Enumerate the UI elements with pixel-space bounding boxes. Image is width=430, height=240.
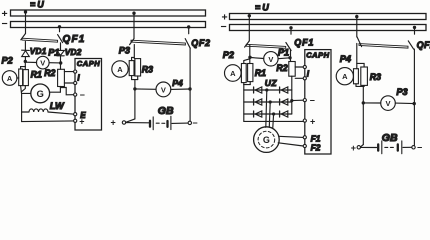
voltmeter P4 (left circuit) — [156, 82, 171, 97]
terminal plus of left CAPH — [74, 119, 77, 122]
svg-text:QF2: QF2 — [191, 38, 210, 48]
wire node to voltmeter P3 (right circuit) — [363, 102, 381, 104]
breaker QF2 pole-A blade (right circuit) — [357, 37, 362, 47]
wire phase 2 to machine — [268, 102, 271, 127]
node phase1 junction — [265, 88, 268, 91]
terminal I1 of left CAPH — [74, 70, 77, 73]
terminal I1 of right CAPH — [303, 65, 306, 68]
node phase2 junction — [269, 100, 272, 103]
bus - busbar bottom (left circuit) — [11, 22, 206, 28]
wire G armature right to R2 bottom node — [50, 91, 61, 93]
svg-text:+: + — [79, 117, 84, 127]
wire node A down to T split — [24, 62, 26, 67]
ammeter P2 (right circuit) — [225, 65, 242, 82]
wire node A to voltmeter P1 — [26, 61, 37, 63]
wire QF2 pole A down to R3 branch — [133, 45, 135, 59]
svg-text:+: + — [310, 117, 315, 127]
breaker QF1 linkage bar (right circuit) — [246, 44, 285, 48]
ammeter P4 (right circuit) — [336, 68, 353, 85]
node A junction (VD1 / P1 / R1 tap) — [24, 60, 27, 63]
node junction dot on + bus (QF1 pole A, right) — [248, 14, 251, 17]
battery GB (right circuit) — [357, 141, 415, 154]
svg-text:G: G — [37, 89, 44, 100]
diode UZ row2 left — [254, 99, 262, 105]
svg-text:−: − — [417, 142, 422, 152]
svg-text:LW: LW — [50, 101, 65, 111]
wire shunt bottom to left rail — [20, 86, 23, 94]
breaker QF1 pole-A blade (right circuit) — [245, 41, 250, 47]
wire bottom return to + terminal of CAPH — [22, 120, 75, 123]
bridge row 1 wire — [244, 89, 292, 91]
diode VD1 — [22, 50, 30, 61]
svg-text:P2: P2 — [2, 55, 14, 65]
wire node to voltmeter P1 (right circuit) — [251, 58, 264, 59]
wire rail down to P4 node — [134, 80, 136, 119]
terminal F2 of right CAPH — [303, 144, 306, 147]
svg-text:VD2: VD2 — [65, 47, 82, 57]
battery GB (left circuit) — [122, 116, 191, 129]
wire bridge - output to CAPH minus terminal — [292, 99, 304, 101]
svg-text:GB: GB — [382, 132, 398, 144]
resistor R2 (right circuit) — [289, 62, 295, 77]
svg-text:P2: P2 — [223, 50, 235, 60]
terminal plus of right CAPH — [303, 119, 306, 122]
terminal I2 of left CAPH — [74, 81, 77, 84]
ammeter P2 (left circuit) — [2, 71, 18, 86]
svg-text:P1: P1 — [278, 47, 289, 57]
svg-text:A: A — [117, 65, 123, 74]
breaker QF1 linkage bar — [22, 38, 58, 42]
wire rail down to P3 node (right circuit) — [362, 86, 364, 144]
diode UZ row2 right — [280, 99, 288, 105]
wire rail to R3 top (right circuit) — [357, 63, 364, 67]
wire QF2 pole B rail down to battery minus — [189, 48, 191, 121]
resistor R3 (right circuit) — [361, 67, 368, 85]
resistor R3 (left circuit) — [135, 59, 141, 76]
svg-text:UZ: UZ — [265, 78, 278, 88]
wire shunt and R3 bottoms merge (right circuit) — [356, 84, 364, 87]
svg-text:CAPH: CAPH — [77, 59, 100, 68]
node B junction (VD2 / P1 / R2 tap) — [59, 61, 62, 64]
svg-text:−: − — [310, 96, 315, 106]
wire voltmeter P3 to right rail (right circuit) — [395, 102, 414, 105]
ammeter P3 (left circuit) — [112, 61, 129, 77]
wire QF2 pole-A tap from + bus (right circuit) — [356, 15, 358, 37]
wire shunt and R3 bottoms merge — [132, 76, 138, 80]
svg-text:V: V — [385, 99, 390, 108]
wire voltmeter P1 to node B — [49, 62, 61, 64]
wire QF1 pole A to diode VD1 — [24, 42, 26, 51]
node P4 left junction — [133, 87, 136, 90]
wire QF1 pole B to diode VD2 — [60, 43, 62, 50]
svg-text:V: V — [40, 59, 45, 68]
wire rail jog to battery plus terminal (right circuit) — [360, 145, 363, 147]
node phase3 junction — [272, 112, 275, 115]
ammeter P3 shunt box — [129, 61, 134, 76]
breaker QF1 pole-B blade (right circuit) — [286, 43, 291, 51]
synchronous machine GC — [254, 127, 280, 153]
svg-text:F2: F2 — [311, 143, 321, 153]
svg-text:=U: =U — [255, 2, 271, 12]
wire R2 to CAPH current terminal 1 — [64, 71, 74, 73]
wire QF2 pole B rail down to battery minus (right circuit) — [413, 49, 415, 145]
wire voltmeter P1 to right node (right circuit) — [278, 57, 290, 60]
wire machine field to F2 terminal — [278, 143, 303, 146]
svg-text:R2: R2 — [44, 68, 55, 78]
bridge row 2 wire — [244, 101, 292, 103]
voltmeter P1 (left circuit) — [37, 56, 50, 69]
regulator box CAPH (right circuit) — [305, 50, 331, 154]
svg-text:QF2: QF2 — [417, 40, 430, 50]
svg-text:R3: R3 — [142, 65, 153, 75]
resistor R1 (left circuit) — [23, 67, 28, 86]
wire QF1 pole B down to R2 (right circuit) — [290, 51, 292, 62]
svg-text:GB: GB — [158, 105, 174, 117]
node junction dot on - bus (QF1 pole B) — [58, 25, 61, 28]
svg-text:P3: P3 — [119, 46, 130, 56]
svg-text:P3: P3 — [396, 87, 407, 97]
svg-text:A: A — [230, 69, 236, 78]
svg-text:R2: R2 — [276, 63, 287, 73]
diode UZ row1 right — [280, 87, 288, 93]
wire R2 bottom node to - terminal of CAPH — [60, 88, 74, 95]
node junction dot on - bus (QF2 pole B, right) — [413, 26, 416, 29]
wire QF1 pole-A tap from + bus (right circuit) — [248, 15, 250, 41]
node junction dot on - bus (QF2 pole B, left) — [187, 25, 190, 28]
svg-text:A: A — [7, 74, 13, 83]
wire rail jog to battery plus terminal — [126, 119, 135, 123]
node P3 right junction (right circuit) — [413, 102, 416, 105]
wire QF2 pole A down to R3 branch (right circuit) — [356, 43, 358, 68]
resistor R2 shunt (left circuit) — [58, 69, 65, 86]
wire shunt and R1 bottoms merge (right circuit) — [244, 82, 250, 85]
node P3 left junction (right circuit) — [362, 101, 365, 104]
breaker QF2 pole-B blade (left circuit) — [185, 39, 190, 49]
diode UZ row3 left — [254, 111, 262, 117]
wire left rail down — [21, 93, 23, 121]
breaker QF1 pole-B blade — [58, 35, 63, 43]
breaker QF2 pole-A blade (left circuit) — [130, 39, 134, 45]
breaker QF2 pole-B blade (right circuit) — [408, 41, 413, 49]
wire phase 1 to machine — [266, 90, 267, 127]
bus + busbar top (right circuit) — [230, 14, 427, 20]
node junction dot on - bus (QF1 pole B, right) — [289, 26, 292, 29]
node junction dot on + bus (QF1 pole A) — [24, 10, 27, 13]
svg-text:R3: R3 — [370, 72, 381, 82]
wire QF2 pole-A tap from + bus (left circuit) — [133, 12, 135, 39]
bus - busbar bottom (right circuit) — [230, 25, 427, 31]
svg-text:CAPH: CAPH — [306, 51, 329, 60]
wire rail to P2 shunt top (right circuit) — [244, 59, 250, 64]
diode UZ row3 right — [280, 111, 288, 117]
svg-text:−: − — [2, 18, 8, 30]
svg-text:+: + — [351, 143, 356, 153]
wire R2 to CAPH current terminal 2 (right circuit) — [295, 77, 303, 79]
resistor R1 (right circuit) — [248, 64, 253, 82]
wire QF2 pole-B tap from - bus (right circuit) — [414, 27, 416, 34]
wire R2 to CAPH current terminal 2 — [64, 82, 74, 84]
node P4 right junction — [188, 87, 191, 90]
breaker QF2 linkage bar (left circuit) — [131, 40, 185, 45]
svg-text:I: I — [77, 74, 80, 83]
inductor LW field winding — [22, 109, 75, 114]
wire right DC rail of bridge UZ — [291, 76, 293, 114]
voltmeter P3 (right circuit) — [381, 96, 396, 111]
terminal F1 of right CAPH — [303, 136, 306, 139]
wire R1 bottom merge to rail — [22, 86, 26, 92]
terminal I2 of right CAPH — [303, 77, 306, 80]
svg-text:−: − — [221, 21, 227, 33]
wire R2 to CAPH current terminal 1 (right circuit) — [295, 66, 303, 68]
diode VD2 — [57, 50, 65, 69]
ammeter P2 shunt box (right circuit) — [241, 64, 246, 83]
node P1 right junction (right circuit) — [288, 56, 291, 59]
svg-text:−: − — [192, 118, 197, 128]
svg-text:P4: P4 — [172, 78, 183, 88]
node minus output junction — [290, 99, 293, 102]
svg-text:R1: R1 — [255, 68, 266, 78]
wire QF1 pole-A tap from + bus — [25, 11, 27, 34]
breaker QF2 linkage bar (right circuit) — [359, 44, 408, 49]
ammeter P2 shunt box — [19, 69, 23, 86]
voltmeter P1 (right circuit) — [264, 52, 278, 66]
node P1 left junction (right circuit) — [248, 56, 251, 59]
wire rail to P3 shunt top — [132, 57, 135, 60]
svg-text:−: − — [80, 90, 85, 100]
terminal E of left CAPH — [74, 113, 77, 116]
wire left DC rail of bridge UZ — [243, 85, 245, 122]
wire phase 3 to machine — [272, 114, 275, 128]
wire machine field to F1 terminal — [279, 136, 304, 137]
svg-text:V: V — [268, 55, 273, 64]
svg-text:QF1: QF1 — [63, 34, 86, 45]
wire left rail to G armature — [22, 92, 31, 94]
svg-text:P4: P4 — [340, 54, 351, 64]
node junction dot on + bus (QF2 pole A, right) — [355, 15, 358, 18]
svg-text:QF1: QF1 — [294, 38, 314, 48]
node junction dot on + bus (QF2 pole A, left) — [132, 12, 135, 15]
svg-text:R1: R1 — [31, 69, 42, 79]
regulator box CAPH (left circuit) — [75, 59, 102, 131]
wire voltmeter P4 to right rail — [171, 88, 190, 90]
diode UZ row1 left — [254, 87, 262, 93]
svg-text:=U: =U — [30, 0, 46, 10]
svg-text:I: I — [307, 70, 310, 79]
wire R2 bottom to G node — [59, 87, 61, 93]
breaker QF1 pole-A blade — [21, 34, 26, 40]
wire QF1 pole A down to R1 (right circuit) — [249, 45, 251, 64]
generator G armature — [31, 84, 50, 103]
wire node to voltmeter P4 — [135, 88, 156, 90]
wire T split to ammeter shunt branch — [21, 67, 26, 69]
bus + busbar top (left circuit) — [11, 10, 206, 16]
wire QF2 pole-B tap from - bus (left circuit) — [188, 27, 190, 33]
terminal minus of left CAPH — [74, 93, 77, 96]
svg-text:G: G — [263, 135, 270, 145]
ammeter P4 shunt box — [354, 69, 359, 84]
svg-text:V: V — [161, 85, 166, 94]
wire bridge + output to CAPH plus terminal — [244, 120, 303, 122]
wire QF1 pole-B tap from - bus — [59, 27, 61, 32]
svg-text:VD1: VD1 — [30, 46, 47, 56]
svg-text:+: + — [111, 117, 116, 127]
terminal minus of right CAPH — [303, 99, 306, 102]
bridge row 3 wire — [244, 113, 292, 115]
wire QF1 pole-B tap from - bus (right circuit) — [290, 27, 292, 34]
svg-text:A: A — [342, 72, 348, 81]
